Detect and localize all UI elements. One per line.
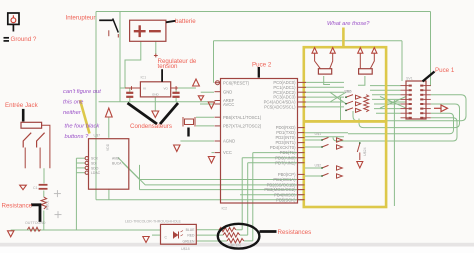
svg-text:Resistance: Resistance <box>2 203 33 210</box>
svg-text:U$1: U$1 <box>315 132 322 136</box>
svg-text:PB7(XTAL2/TOSC2): PB7(XTAL2/TOSC2) <box>223 124 262 129</box>
svg-text:tension: tension <box>158 63 179 70</box>
svg-text:SDO: SDO <box>91 166 99 170</box>
svg-text:BUCA: BUCA <box>112 161 122 165</box>
svg-text:VDD: VDD <box>106 143 110 151</box>
svg-text:GREEN: GREEN <box>228 244 241 248</box>
svg-text:IC2: IC2 <box>222 207 228 211</box>
svg-text:IC1: IC1 <box>141 76 147 80</box>
svg-text:U$18: U$18 <box>181 247 190 251</box>
svg-text:Entrée Jack: Entrée Jack <box>5 102 39 109</box>
svg-text:PB6(XTAL1/TOSC1): PB6(XTAL1/TOSC1) <box>223 115 262 120</box>
svg-text:Condensateurs: Condensateurs <box>130 123 172 130</box>
svg-text:ROU1: ROU1 <box>46 200 50 210</box>
svg-text:PB1(OC1A): PB1(OC1A) <box>273 177 296 182</box>
svg-text:Resistances: Resistances <box>278 229 312 236</box>
svg-text:C1: C1 <box>33 186 38 190</box>
svg-text:AVCC: AVCC <box>223 102 234 107</box>
svg-text:the four black: the four black <box>65 124 101 130</box>
svg-text:U$7: U$7 <box>94 134 101 138</box>
svg-text:Ground ?: Ground ? <box>11 36 37 43</box>
svg-text:PC5(ADC5/SCL): PC5(ADC5/SCL) <box>264 105 296 110</box>
svg-text:PC6(/RESET): PC6(/RESET) <box>223 80 250 85</box>
svg-text:GND: GND <box>152 92 160 96</box>
svg-text:can't figure out: can't figure out <box>63 89 101 95</box>
svg-text:SDI: SDI <box>91 161 97 165</box>
svg-text:VI: VI <box>143 86 146 90</box>
svg-text:VO: VO <box>164 86 169 90</box>
svg-text:U$3: U$3 <box>344 90 351 94</box>
svg-text:Puce 2: Puce 2 <box>252 62 272 69</box>
svg-text:buttons ?: buttons ? <box>65 134 90 140</box>
svg-text:BLUE: BLUE <box>186 228 196 232</box>
svg-text:PB5(SCK): PB5(SCK) <box>276 197 296 202</box>
svg-text:AVBL: AVBL <box>112 157 121 161</box>
svg-text:GREEN: GREEN <box>182 239 195 243</box>
svg-text:Interupteur: Interupteur <box>66 15 96 22</box>
svg-text:PD7(AIN1): PD7(AIN1) <box>275 160 296 165</box>
svg-text:U$2: U$2 <box>315 164 322 168</box>
svg-text:U$24: U$24 <box>363 147 367 156</box>
svg-text:GND: GND <box>223 89 232 94</box>
svg-text:OUTTOGND: OUTTOGND <box>25 221 46 225</box>
svg-text:batterie: batterie <box>175 18 196 25</box>
svg-text:SV1: SV1 <box>406 77 413 81</box>
svg-text:LDAC: LDAC <box>91 171 101 175</box>
svg-text:neither: neither <box>63 110 82 116</box>
svg-text:RED: RED <box>187 234 195 238</box>
svg-text:this one: this one <box>63 100 84 106</box>
svg-text:Puce 1: Puce 1 <box>435 67 455 74</box>
svg-text:AGND: AGND <box>223 139 235 144</box>
svg-text:LED-TRICOLOR-THROUGHHOLE: LED-TRICOLOR-THROUGHHOLE <box>125 220 182 224</box>
svg-text:SCK: SCK <box>91 157 99 161</box>
svg-text:What are those?: What are those? <box>327 21 370 27</box>
svg-text:VCC: VCC <box>223 150 232 155</box>
